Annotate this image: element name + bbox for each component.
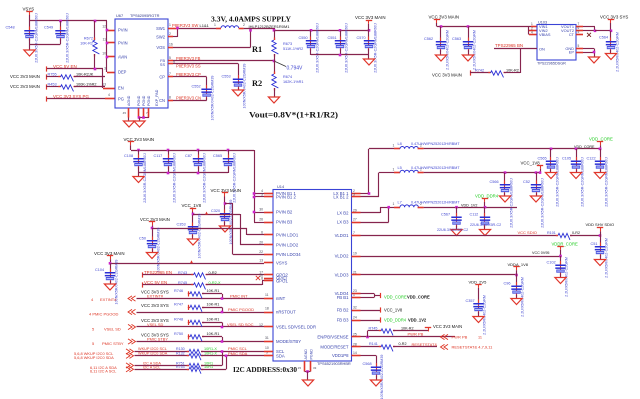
svg-text:C353: C353 — [177, 222, 186, 226]
svg-text:VCC 3V3 SYS: VCC 3V3 SYS — [141, 289, 169, 294]
svg-text:VLDO1: VLDO1 — [335, 233, 350, 238]
svg-text:DEP: DEP — [118, 70, 127, 75]
svg-text:VDDR_CORE: VDDR_CORE — [552, 241, 578, 246]
svg-text:PVIN B1 2: PVIN B1 2 — [276, 195, 296, 200]
svg-text:1: 1 — [531, 22, 533, 26]
svg-text:VDD_CORE: VDD_CORE — [407, 294, 430, 299]
svg-text:C102: C102 — [547, 261, 556, 265]
svg-text:7: 7 — [353, 231, 355, 235]
svg-text:PGND: PGND — [137, 95, 141, 106]
svg-text:C50: C50 — [139, 236, 146, 240]
svg-text:R453: R453 — [48, 83, 57, 87]
svg-text:11: 11 — [102, 38, 106, 42]
svg-text:SW2: SW2 — [156, 35, 166, 40]
svg-text:VLDO3: VLDO3 — [335, 273, 350, 278]
svg-text:VLDO2: VLDO2 — [335, 254, 350, 259]
svg-text:20: 20 — [259, 241, 263, 245]
svg-text:AVIN: AVIN — [118, 55, 127, 60]
svg-text:FB B3: FB B3 — [337, 318, 349, 323]
svg-text:10K-R1: 10K-R1 — [207, 332, 220, 336]
svg-text:22U6.3/X5R-C2GRM188R60J: 22U6.3/X5R-C2GRM188R60J — [315, 23, 319, 73]
svg-text:VSEL SD/VSEL DDR: VSEL SD/VSEL DDR — [276, 325, 316, 330]
svg-text:VDD1P8: VDD1P8 — [332, 353, 349, 358]
svg-text:R747: R747 — [174, 303, 183, 307]
svg-text:PGND: PGND — [147, 95, 151, 106]
svg-text:VCC 3V3 SYS: VCC 3V3 SYS — [141, 318, 169, 323]
svg-text:10R1-X: 10R1-X — [204, 352, 217, 356]
svg-text:2: 2 — [243, 23, 245, 27]
svg-text:PG: PG — [118, 97, 124, 102]
svg-text:TPS6521903RHBR: TPS6521903RHBR — [317, 361, 351, 366]
svg-text:C566: C566 — [490, 180, 499, 184]
svg-text:VCC_1V8: VCC_1V8 — [521, 161, 541, 166]
svg-text:5,6,8 WKUP I2C0 SDA: 5,6,8 WKUP I2C0 SDA — [74, 355, 114, 360]
svg-text:C104: C104 — [95, 268, 104, 272]
svg-text:162K-1%R1: 162K-1%R1 — [283, 80, 303, 84]
svg-text:PMIC INT: PMIC INT — [230, 293, 248, 298]
svg-text:C563: C563 — [452, 37, 461, 41]
svg-text:Vout=0.8V*(1+R1/R2): Vout=0.8V*(1+R1/R2) — [249, 111, 338, 120]
svg-text:PVIN B3: PVIN B3 — [276, 220, 293, 225]
svg-text:EXP_PAD: EXP_PAD — [155, 89, 159, 106]
svg-text:2.2U/X5R/0402-C2GRM: 2.2U/X5R/0402-C2GRM — [483, 295, 487, 335]
svg-text:8: 8 — [169, 95, 171, 99]
svg-text:VDD_CORE: VDD_CORE — [589, 137, 613, 142]
svg-text:C550: C550 — [299, 36, 308, 40]
svg-text:10K-R2: 10K-R2 — [401, 326, 414, 330]
svg-text:C320: C320 — [211, 209, 220, 213]
svg-text:VCC 3V3 MAIN: VCC 3V3 MAIN — [432, 73, 462, 78]
svg-text:C87: C87 — [185, 154, 192, 158]
svg-text:P8ER3V3 CN: P8ER3V3 CN — [176, 96, 201, 101]
svg-text:10K-R2: 10K-R2 — [506, 68, 519, 72]
svg-text:5: 5 — [578, 30, 580, 34]
svg-text:22U6.3/X5R-C2GRM188R60J: 22U6.3/X5R-C2GRM188R60J — [232, 153, 236, 203]
svg-text:2.2U/X5R/0402-C2GRM: 2.2U/X5R/0402-C2GRM — [605, 238, 609, 278]
svg-text:22U6.3/X5R-C2GRM188R60J: 22U6.3/X5R-C2GRM188R60J — [373, 23, 377, 73]
svg-text:U14: U14 — [277, 184, 285, 189]
svg-text:2.2U/X5R/0402-C2GRM: 2.2U/X5R/0402-C2GRM — [473, 30, 477, 70]
svg-text:C551: C551 — [328, 36, 337, 40]
svg-text:C549: C549 — [44, 26, 53, 30]
svg-text:C112: C112 — [470, 213, 479, 217]
svg-text:R132: R132 — [176, 352, 185, 356]
svg-text:GPO1: GPO1 — [276, 279, 288, 284]
svg-text:VCC 3V3 MAIN: VCC 3V3 MAIN — [433, 324, 462, 329]
svg-text:22U6.3/X5R-C2GRM188R60J: 22U6.3/X5R-C2GRM188R60J — [555, 157, 559, 207]
svg-text:VSYS: VSYS — [23, 7, 35, 12]
svg-text:C108: C108 — [124, 154, 133, 158]
svg-text:100K-1%R2: 100K-1%R2 — [76, 83, 96, 87]
svg-text:21: 21 — [353, 271, 357, 275]
svg-text:26: 26 — [259, 218, 263, 222]
svg-text:R672: R672 — [84, 37, 93, 41]
svg-text:12: 12 — [102, 25, 106, 29]
svg-text:2.2U/X5R/0402-C2GRM: 2.2U/X5R/0402-C2GRM — [616, 32, 620, 72]
svg-text:7: 7 — [169, 72, 171, 76]
svg-text:PVIN: PVIN — [118, 41, 128, 46]
svg-text:0.47UH/WPN252012H/RBMT: 0.47UH/WPN252012H/RBMT — [411, 201, 460, 205]
svg-text:CP: CP — [159, 75, 165, 80]
svg-text:1: 1 — [214, 23, 216, 27]
svg-text:10: 10 — [102, 52, 106, 56]
svg-text:R753: R753 — [176, 365, 185, 369]
svg-text:C562: C562 — [424, 37, 433, 41]
svg-text:28: 28 — [353, 343, 357, 347]
svg-text:0-R2-X: 0-R2-X — [209, 281, 221, 285]
svg-text:U67: U67 — [116, 13, 123, 18]
svg-text:2.2U/X5R/0402-C2GRM: 2.2U/X5R/0402-C2GRM — [521, 277, 525, 317]
svg-text:511K-1%R2: 511K-1%R2 — [283, 47, 303, 51]
svg-text:LX B1 2: LX B1 2 — [333, 195, 349, 200]
svg-text:30: 30 — [259, 208, 263, 212]
svg-text:VCC SDIO: VCC SDIO — [518, 230, 537, 235]
svg-text:22U6.3/X5R-C2GRM188R60J: 22U6.3/X5R-C2GRM188R60J — [509, 178, 513, 228]
svg-text:C567: C567 — [441, 213, 450, 217]
svg-text:VBIAS: VBIAS — [539, 32, 551, 37]
svg-text:1: 1 — [169, 23, 171, 27]
svg-text:1: 1 — [393, 144, 395, 148]
svg-text:VCC 3V3 MAIN: VCC 3V3 MAIN — [355, 15, 386, 20]
svg-text:RESETSTAT&: RESETSTAT& — [412, 342, 438, 347]
svg-text:R101: R101 — [547, 231, 556, 235]
svg-text:R1: R1 — [252, 45, 262, 54]
svg-text:3: 3 — [353, 193, 355, 197]
svg-text:100N/X5R/0402-C2GRM39: 100N/X5R/0402-C2GRM39 — [211, 76, 215, 121]
svg-text:PWR PB: PWR PB — [452, 334, 468, 339]
svg-text:L1&1: L1&1 — [200, 23, 210, 28]
svg-text:PVIN LDO34: PVIN LDO34 — [276, 252, 301, 257]
svg-text:6,11 I2C A SCL: 6,11 I2C A SCL — [90, 369, 117, 374]
svg-text:AGND: AGND — [304, 349, 308, 360]
svg-text:C105: C105 — [562, 157, 571, 161]
svg-text:R673: R673 — [283, 42, 292, 46]
svg-text:VSEL SD SOC: VSEL SD SOC — [227, 322, 254, 327]
svg-text:R750: R750 — [174, 332, 183, 336]
svg-text:31: 31 — [265, 336, 269, 340]
svg-text:P8ER3V3 FB: P8ER3V3 FB — [176, 56, 201, 61]
svg-text:1: 1 — [393, 167, 395, 171]
svg-text:15: 15 — [298, 366, 302, 370]
svg-text:19: 19 — [353, 252, 357, 256]
svg-text:10K-R2: 10K-R2 — [80, 41, 93, 45]
svg-text:CT: CT — [569, 32, 575, 37]
svg-text:WKUP I2C0 SDA: WKUP I2C0 SDA — [138, 352, 168, 356]
svg-text:R2: R2 — [252, 79, 262, 88]
svg-text:R742: R742 — [475, 68, 484, 72]
svg-text:11: 11 — [478, 335, 482, 339]
svg-text:EP: EP — [569, 50, 575, 55]
svg-text:I2C A SCL: I2C A SCL — [143, 365, 161, 369]
svg-text:SW1: SW1 — [156, 26, 166, 31]
svg-text:VDD_CORE: VDD_CORE — [384, 294, 407, 299]
svg-text:16: 16 — [169, 42, 173, 46]
svg-text:R674: R674 — [283, 75, 292, 79]
svg-text:PVIN B2: PVIN B2 — [276, 210, 293, 215]
svg-text:P8ER3V3 SW: P8ER3V3 SW — [172, 23, 198, 28]
svg-text:32: 32 — [353, 306, 357, 310]
svg-text:C553: C553 — [222, 75, 231, 79]
svg-text:22U6.3/X5R-C2GRM188R60J: 22U6.3/X5R-C2GRM188R60J — [344, 23, 348, 73]
svg-text:CN: CN — [159, 98, 165, 103]
svg-text:EN/PB/VSENSE: EN/PB/VSENSE — [317, 335, 348, 340]
svg-text:13: 13 — [259, 259, 263, 263]
svg-text:11: 11 — [265, 293, 269, 297]
svg-text:VCC 3V3 MAIN: VCC 3V3 MAIN — [10, 84, 40, 89]
svg-text:100N/X5R/0402-C2GRM39: 100N/X5R/0402-C2GRM39 — [157, 228, 161, 273]
svg-text:2: 2 — [169, 32, 171, 36]
svg-text:AGND: AGND — [127, 95, 131, 106]
svg-text:5: 5 — [261, 193, 263, 197]
svg-text:4 PMIC PGOOD: 4 PMIC PGOOD — [89, 311, 118, 316]
svg-text:100N/X5R/0402-C2GRM39: 100N/X5R/0402-C2GRM39 — [380, 355, 384, 399]
svg-text:C570: C570 — [357, 36, 366, 40]
svg-text:EN: EN — [118, 86, 124, 91]
svg-text:C52: C52 — [523, 180, 530, 184]
svg-text:PVIN LDO1: PVIN LDO1 — [276, 233, 299, 238]
svg-text:C564: C564 — [599, 36, 608, 40]
svg-text:C51: C51 — [591, 242, 598, 246]
svg-text:PWR PB: PWR PB — [408, 331, 424, 336]
svg-text:100N/X5R/0402-C2GRM39: 100N/X5R/0402-C2GRM39 — [229, 200, 233, 245]
svg-text:RT45: RT45 — [369, 326, 378, 330]
svg-text:FB B1: FB B1 — [337, 295, 349, 300]
svg-text:0-R2: 0-R2 — [399, 342, 407, 346]
svg-text:18: 18 — [265, 307, 269, 311]
svg-text:VCC 3V3 SYS: VCC 3V3 SYS — [600, 15, 628, 20]
svg-text:R141: R141 — [369, 342, 378, 346]
svg-text:VCC 3V3 SYS: VCC 3V3 SYS — [141, 303, 169, 308]
svg-text:R755: R755 — [48, 73, 57, 77]
svg-text:L7: L7 — [398, 200, 402, 205]
svg-text:TPS62095RGTR: TPS62095RGTR — [130, 13, 160, 18]
svg-text:nRSTOUT: nRSTOUT — [276, 310, 296, 315]
svg-text:0-R2: 0-R2 — [209, 271, 217, 275]
svg-text:22U6.3/X5R-C2GRM188R60J: 22U6.3/X5R-C2GRM188R60J — [35, 13, 39, 63]
svg-text:PGND: PGND — [309, 349, 313, 360]
svg-text:29: 29 — [353, 209, 357, 213]
svg-text:FB B2: FB B2 — [337, 308, 349, 313]
svg-text:VDD_1V2: VDD_1V2 — [408, 318, 427, 323]
svg-text:22U6.3/X5R-C2GRM188R60J: 22U6.3/X5R-C2GRM188R60J — [202, 153, 206, 203]
svg-text:22U6.3/16/X5R-C2: 22U6.3/16/X5R-C2 — [437, 228, 468, 232]
svg-text:EXTINT#: EXTINT# — [100, 297, 117, 302]
svg-text:C117: C117 — [154, 154, 163, 158]
svg-text:2.2U/X5R/0402-C2GRM: 2.2U/X5R/0402-C2GRM — [446, 30, 450, 70]
svg-text:100N/X5R/0402-C2GRM39: 100N/X5R/0402-C2GRM39 — [243, 64, 247, 109]
svg-text:PMIC PGOOD: PMIC PGOOD — [228, 307, 254, 312]
svg-text:22: 22 — [259, 250, 263, 254]
svg-text:0.47UH/WPN252012H/RBMT: 0.47UH/WPN252012H/RBMT — [411, 166, 460, 170]
svg-text:100N/X5R/0402-C2GRM39: 100N/X5R/0402-C2GRM39 — [198, 214, 202, 259]
svg-text:10K-R1: 10K-R1 — [207, 289, 220, 293]
svg-text:22U6.3/X5R-C2GRM188R60J: 22U6.3/X5R-C2GRM188R60J — [540, 178, 544, 228]
svg-text:24: 24 — [353, 316, 357, 320]
svg-text:10R1: 10R1 — [204, 365, 213, 369]
svg-text:TPS22965DSGR: TPS22965DSGR — [537, 61, 566, 65]
svg-text:10R1-X: 10R1-X — [204, 347, 217, 351]
svg-text:MODE/RESET: MODE/RESET — [320, 345, 349, 350]
svg-text:C96: C96 — [504, 282, 511, 286]
svg-text:C357: C357 — [466, 299, 475, 303]
svg-text:VDD_DDR4: VDD_DDR4 — [384, 318, 407, 323]
svg-text:5: 5 — [578, 44, 580, 48]
svg-text:27: 27 — [353, 218, 357, 222]
svg-text:ON: ON — [539, 47, 545, 52]
svg-text:C122: C122 — [587, 157, 596, 161]
svg-text:VSEL SD: VSEL SD — [104, 326, 121, 331]
svg-text:22U6.3/X5R-C2GRM188R60J: 22U6.3/X5R-C2GRM188R60J — [172, 153, 176, 203]
svg-text:R748: R748 — [174, 318, 183, 322]
svg-text:R130: R130 — [176, 347, 185, 351]
svg-text:8: 8 — [261, 277, 263, 281]
svg-text:3.3V, 4.0AMPS SUPPLY: 3.3V, 4.0AMPS SUPPLY — [211, 14, 292, 23]
svg-text:MODE/STBY: MODE/STBY — [276, 339, 301, 344]
svg-text:10K-R1: 10K-R1 — [207, 303, 220, 307]
svg-text:VOS: VOS — [156, 45, 165, 50]
svg-text:VSYS: VSYS — [276, 261, 288, 266]
svg-text:PVIN LDO2: PVIN LDO2 — [276, 243, 299, 248]
svg-text:0-R2: 0-R2 — [572, 231, 580, 235]
svg-text:25: 25 — [353, 333, 357, 337]
svg-text:P8ER3V3 SS: P8ER3V3 SS — [176, 64, 201, 69]
svg-text:1: 1 — [353, 293, 355, 297]
svg-text:1: 1 — [393, 202, 395, 206]
svg-text:10K-R1: 10K-R1 — [207, 318, 220, 322]
svg-text:4: 4 — [108, 93, 110, 97]
svg-text:P8ER3V3 CP: P8ER3V3 CP — [176, 72, 201, 77]
svg-text:3: 3 — [104, 67, 106, 71]
svg-text:R745: R745 — [178, 281, 187, 285]
svg-text:13: 13 — [102, 83, 106, 87]
svg-text:R746: R746 — [174, 289, 183, 293]
svg-text:VDD SHV SDIO: VDD SHV SDIO — [586, 222, 615, 227]
svg-text:C565: C565 — [213, 154, 222, 158]
svg-text:0.794V: 0.794V — [287, 66, 304, 72]
svg-text:C568: C568 — [363, 362, 372, 366]
svg-text:4: 4 — [531, 30, 533, 34]
svg-text:PVIN: PVIN — [118, 28, 128, 33]
svg-text:14: 14 — [353, 351, 357, 355]
svg-text:PMIC SDA: PMIC SDA — [228, 351, 248, 356]
svg-text:nINT: nINT — [276, 296, 286, 301]
svg-text:R743: R743 — [178, 271, 187, 275]
svg-text:VCC_1V8: VCC_1V8 — [384, 308, 403, 313]
svg-text:VCC 5V EN: VCC 5V EN — [144, 280, 167, 285]
svg-text:LX B2: LX B2 — [337, 211, 349, 216]
svg-text:10K-R2JK: 10K-R2JK — [76, 73, 94, 77]
svg-text:VCC 3V3 SYS: VCC 3V3 SYS — [141, 332, 169, 337]
svg-text:C548: C548 — [6, 26, 15, 30]
svg-text:SDA: SDA — [276, 353, 285, 358]
svg-text:33: 33 — [313, 366, 317, 370]
svg-text:0.47UH/WPN252012H/RBMT: 0.47UH/WPN252012H/RBMT — [411, 142, 460, 146]
svg-text:VDD_1V2: VDD_1V2 — [461, 203, 477, 207]
svg-text:22U6.3/X5R-C2GRM188R60J: 22U6.3/X5R-C2GRM188R60J — [580, 157, 584, 207]
svg-text:C552: C552 — [192, 85, 201, 89]
svg-text:SS: SS — [160, 63, 166, 67]
svg-text:TPS22965 BN: TPS22965 BN — [495, 43, 523, 48]
svg-text:L5: L5 — [398, 165, 402, 170]
svg-text:I2C ADDRESS:0x30: I2C ADDRESS:0x30 — [233, 366, 297, 374]
svg-text:12: 12 — [259, 323, 263, 327]
svg-text:PGND: PGND — [142, 95, 146, 106]
svg-text:LX B3: LX B3 — [337, 220, 349, 225]
svg-text:22U6.3/X5R-C2GRM188R60J: 22U6.3/X5R-C2GRM188R60J — [66, 13, 70, 63]
svg-text:VCC_1V8: VCC_1V8 — [182, 203, 202, 208]
svg-text:6: 6 — [261, 231, 263, 235]
svg-text:RESETSTAT& 4,7,9,11: RESETSTAT& 4,7,9,11 — [452, 344, 494, 349]
svg-text:22U6.3/16/X5R-C2: 22U6.3/16/X5R-C2 — [470, 223, 501, 227]
svg-text:5: 5 — [169, 56, 171, 60]
svg-text:VCC 0V95: VCC 0V95 — [532, 251, 549, 255]
svg-text:L8: L8 — [398, 141, 402, 146]
svg-text:WKUP I2C0 SCL: WKUP I2C0 SCL — [138, 347, 167, 351]
svg-text:22U6.3/X5R-C2GRM188R60J: 22U6.3/X5R-C2GRM188R60J — [604, 157, 608, 207]
svg-text:VCC 3V3 MAIN: VCC 3V3 MAIN — [429, 15, 460, 20]
svg-text:45: 45 — [123, 111, 127, 115]
svg-text:VCC 3V3 MAIN: VCC 3V3 MAIN — [10, 74, 40, 79]
svg-text:PMIC STBY: PMIC STBY — [102, 341, 124, 346]
svg-text:TPS22965 EN: TPS22965 EN — [144, 270, 172, 275]
